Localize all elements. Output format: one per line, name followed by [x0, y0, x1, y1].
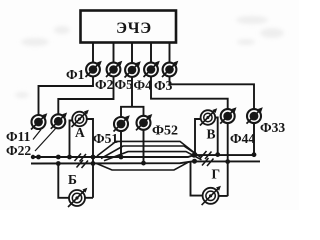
wire Ф2 to Ф22 — [58, 77, 113, 115]
wire T-bar to Ф51 and Ф52 — [121, 107, 144, 117]
indicator В — [200, 108, 217, 125]
svg-text:Б: Б — [68, 172, 77, 187]
loop Б — [58, 164, 93, 198]
junction dots left bus — [36, 155, 41, 160]
break marks left bus — [75, 154, 87, 162]
indicator Г — [202, 186, 221, 205]
break marks right bus — [200, 151, 212, 159]
wire lower link — [96, 162, 189, 170]
svg-text:ЭЧЭ: ЭЧЭ — [116, 20, 152, 37]
wire А right leg / Б right leg — [86, 119, 93, 198]
block U1 ЭЧЭ — [81, 11, 177, 43]
loop Г — [191, 161, 228, 196]
wire Ф5 to T-junction — [131, 77, 133, 107]
wire box to Ф3 — [169, 43, 171, 63]
wire Ф1 to Ф11 — [39, 77, 94, 116]
photocell Ф22 — [51, 113, 67, 129]
wire Ф52 leg — [143, 130, 145, 163]
indicator А — [72, 110, 89, 127]
photocell Ф4 — [144, 61, 160, 77]
wire hump 3 — [104, 152, 202, 161]
svg-text:Ф5: Ф5 — [115, 77, 134, 92]
photocell Ф11 — [31, 113, 47, 129]
junction dots right cluster — [192, 153, 197, 158]
wire А left leg — [70, 121, 73, 158]
junction dots right bus — [193, 152, 198, 157]
wire Ф33 leg — [253, 123, 255, 155]
wire box to Ф4 — [150, 43, 152, 63]
wire В right leg — [215, 118, 218, 155]
svg-text:Г: Г — [212, 167, 221, 182]
svg-text:Ф44: Ф44 — [230, 131, 255, 146]
wire hump 1 — [97, 141, 196, 156]
wire box to Ф1 — [92, 43, 94, 63]
bus top — [31, 155, 255, 157]
photocell Ф51 — [114, 115, 130, 131]
wire Ф3 to Ф33 — [170, 77, 255, 110]
svg-text:Ф2: Ф2 — [95, 77, 114, 92]
svg-text:Ф33: Ф33 — [260, 120, 285, 135]
wire Ф4 to Ф44 — [151, 77, 228, 110]
indicator Б — [68, 188, 87, 207]
svg-text:Ф4: Ф4 — [134, 78, 153, 93]
photocell Ф5 — [125, 61, 141, 77]
wire Ф44 leg / Г right leg — [227, 123, 229, 196]
svg-text:Ф52: Ф52 — [152, 124, 178, 139]
photocell Ф44 — [220, 107, 236, 123]
photocell Ф33 — [247, 107, 263, 123]
wire hump 2 — [101, 146, 201, 159]
leader line Ф11 — [33, 130, 41, 140]
photocell Ф3 — [162, 61, 178, 77]
photocell Ф2 — [106, 61, 122, 77]
svg-text:А: А — [75, 125, 85, 140]
leader line Ф22 — [35, 128, 57, 152]
svg-text:Ф22: Ф22 — [6, 143, 31, 158]
wire Ф51 leg — [120, 131, 122, 157]
svg-text:Ф11: Ф11 — [6, 129, 31, 144]
svg-text:В: В — [207, 127, 216, 142]
svg-text:Ф1: Ф1 — [66, 67, 85, 82]
svg-text:Ф51: Ф51 — [93, 131, 118, 146]
wire box to Ф5 — [131, 43, 133, 64]
wire В left leg — [195, 119, 201, 155]
photocell Ф1 — [86, 61, 102, 77]
photocell Ф52 — [136, 114, 152, 130]
wire box to Ф2 — [113, 43, 115, 63]
junction dots bottom bus — [56, 161, 61, 166]
bus bottom — [31, 161, 260, 163]
